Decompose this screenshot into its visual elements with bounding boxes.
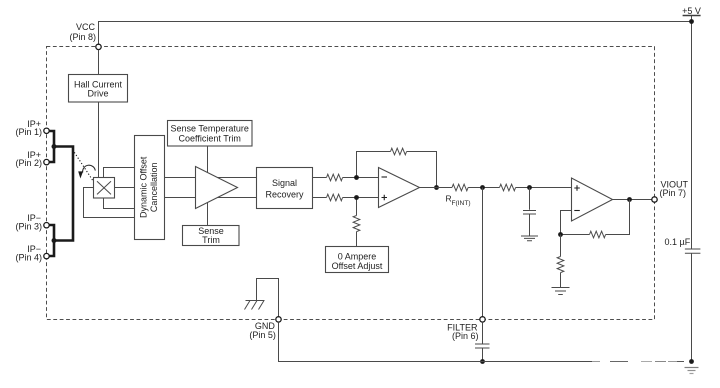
svg-text:(Pin 8): (Pin 8) — [69, 32, 96, 42]
svg-text:(Pin 1): (Pin 1) — [15, 127, 42, 137]
svg-text:0.1 µF: 0.1 µF — [665, 237, 691, 247]
svg-text:Sense Temperature: Sense Temperature — [171, 124, 249, 134]
svg-text:(Pin 3): (Pin 3) — [15, 222, 42, 232]
svg-text:Offset Adjust: Offset Adjust — [332, 261, 383, 271]
svg-text:(Pin 5): (Pin 5) — [249, 330, 276, 340]
svg-text:(Pin 4): (Pin 4) — [15, 252, 42, 262]
svg-text:Recovery: Recovery — [265, 190, 304, 200]
svg-text:Dynamic Offset: Dynamic Offset — [138, 156, 148, 218]
svg-text:(Pin 6): (Pin 6) — [452, 331, 479, 341]
svg-text:VCC: VCC — [76, 22, 96, 32]
svg-text:+5 V: +5 V — [682, 6, 701, 16]
svg-text:Signal: Signal — [272, 178, 297, 188]
svg-text:Coefficient Trim: Coefficient Trim — [179, 134, 241, 144]
svg-text:(Pin 7): (Pin 7) — [660, 188, 687, 198]
svg-text:Trim: Trim — [202, 235, 220, 245]
svg-text:F(INT): F(INT) — [452, 200, 471, 207]
svg-text:(Pin 2): (Pin 2) — [15, 158, 42, 168]
svg-text:Drive: Drive — [87, 88, 108, 98]
svg-text:Cancellation: Cancellation — [149, 163, 159, 213]
